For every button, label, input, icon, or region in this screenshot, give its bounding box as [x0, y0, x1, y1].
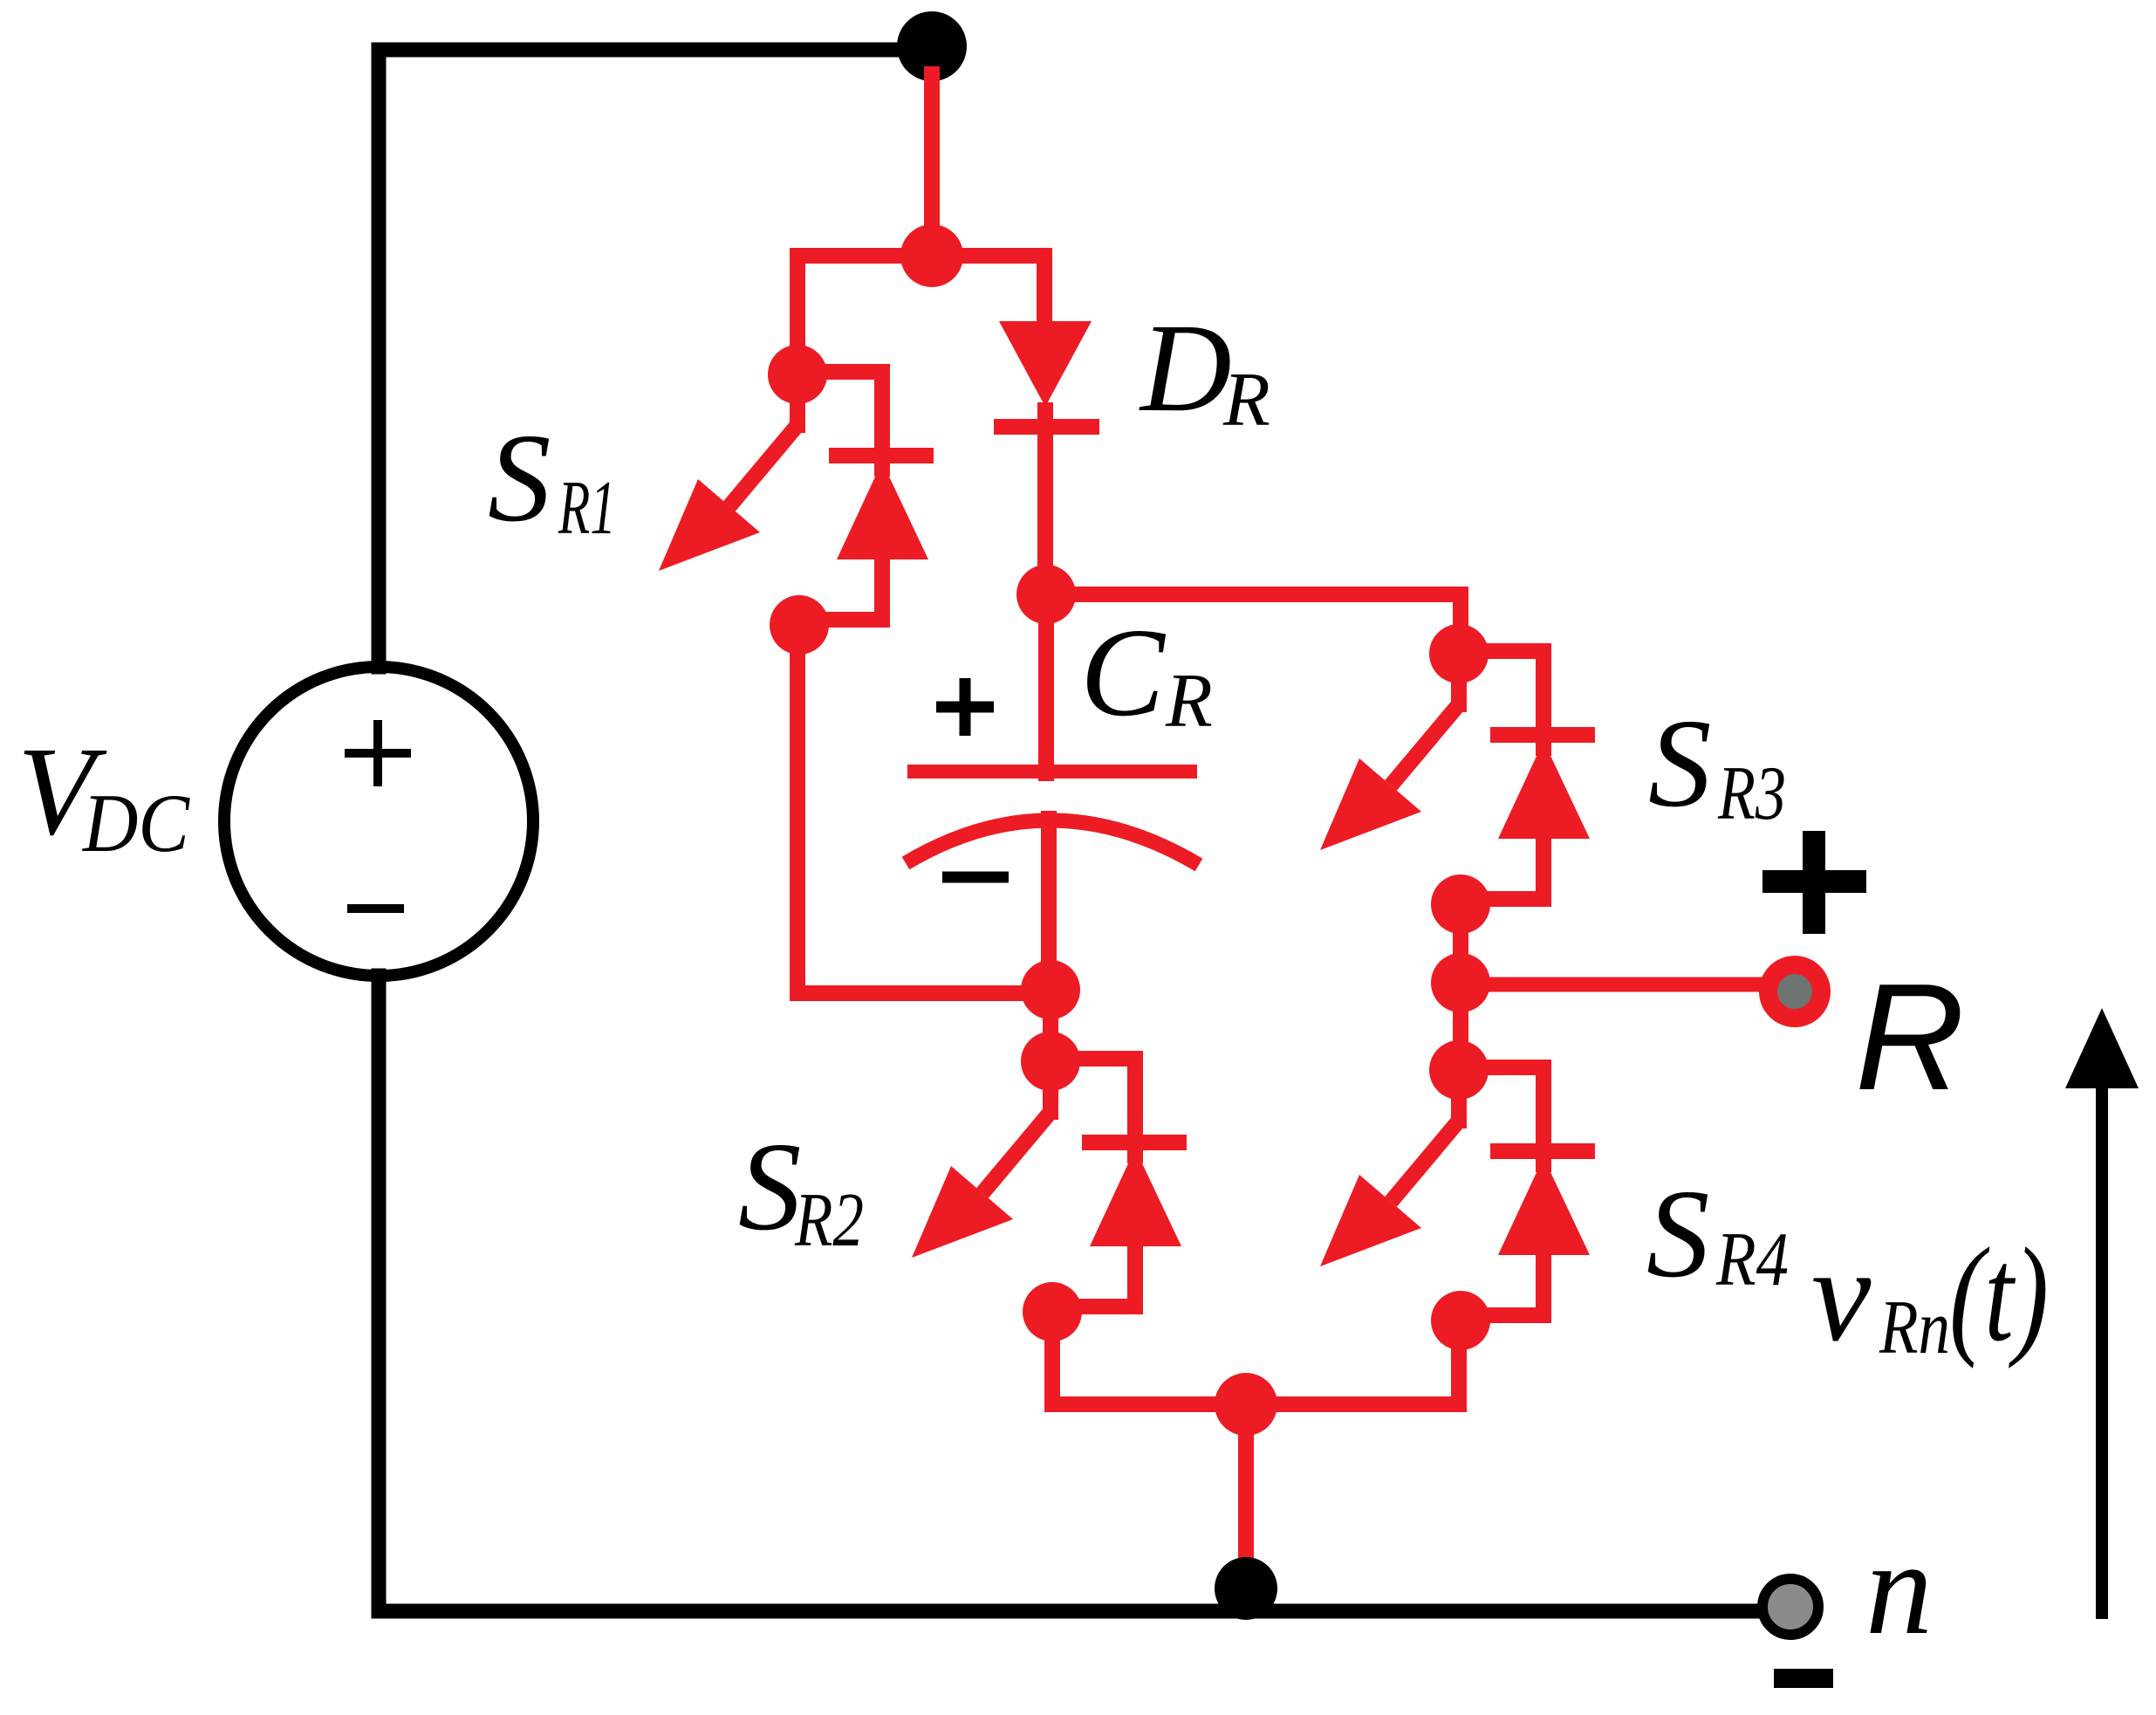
switch SR3 antiparallel diode triangle	[1498, 741, 1590, 839]
svg-text:C: C	[1080, 603, 1167, 743]
switch SR4 top terminal dot	[1429, 1040, 1489, 1100]
wire: red drop from top node	[924, 74, 940, 256]
wire: junction to SR3 branch	[1046, 587, 1461, 602]
wire: horizontal red split	[797, 248, 1044, 264]
terminal R: red ring with gray center	[1759, 956, 1831, 1027]
svg-text:R: R	[1222, 358, 1270, 442]
wire: top black wire from source to top node	[379, 43, 933, 58]
switch SR1 top terminal dot	[768, 345, 827, 404]
svg-text:n: n	[1865, 1514, 1933, 1663]
svg-text:S: S	[738, 1117, 802, 1257]
node: bottom center red junction	[1215, 1373, 1277, 1436]
wire: down-right to DR	[1037, 256, 1052, 325]
bold plus above R terminal	[1762, 870, 1866, 893]
switch SR4 arm arrowhead	[1320, 1175, 1421, 1266]
switch SR4 lower diode wires	[1536, 1255, 1551, 1315]
vRn(t) arrowhead	[2065, 1008, 2139, 1088]
switch SR4 bottom terminal dot	[1431, 1291, 1490, 1350]
VDC plus sign	[345, 749, 411, 758]
diode DR cathode bar	[994, 419, 1099, 435]
switch SR2 antiparallel diode connection wires	[1051, 1051, 1135, 1067]
switch SR3 lower diode wires	[1536, 839, 1551, 899]
VDC minus sign	[347, 904, 404, 913]
svg-text:v: v	[1811, 1221, 1872, 1369]
wire: SR2 bottom to bottom center junction	[1044, 1312, 1060, 1404]
switch SR3 arm arrowhead	[1320, 758, 1421, 850]
switch SR4 antiparallel diode connection wires	[1459, 1060, 1543, 1075]
svg-text:(t): (t)	[1949, 1221, 2049, 1369]
diode DR triangle	[999, 321, 1092, 407]
minus sign below capacitor	[942, 872, 1009, 883]
switch SR2 antiparallel diode triangle	[1090, 1149, 1181, 1246]
switch SR3 antiparallel diode cathode bar	[1490, 727, 1595, 743]
switch SR1 arm arrowhead	[659, 479, 760, 571]
wire: bottom black rail to terminal n	[379, 1604, 1787, 1619]
node: bottom black junction dot (overpaint)	[1215, 1557, 1277, 1620]
wire: SR1 leg to center junction	[797, 985, 1051, 1001]
svg-text:Rn: Rn	[1879, 1286, 1950, 1370]
capacitor CR bottom curved plate	[906, 820, 1199, 865]
capacitor CR top plate	[907, 765, 1197, 779]
svg-text:R3: R3	[1717, 751, 1786, 836]
wire: junction down to capacitor CR	[1038, 594, 1054, 773]
svg-text:R: R	[1165, 659, 1213, 744]
svg-text:R: R	[1855, 951, 1965, 1122]
switch SR2 bottom terminal dot	[1023, 1282, 1082, 1341]
wire: to R terminal	[1461, 978, 1764, 992]
node: junction capacitor / SR1 leg	[1021, 960, 1080, 1019]
wire: DR to junction	[1037, 410, 1053, 596]
wire: junction to SR2	[1043, 990, 1058, 1061]
node: red junction below top node	[900, 224, 963, 287]
wire: red drop to bottom black rail	[1238, 1404, 1254, 1562]
switch SR4 arm wire	[1451, 1070, 1467, 1121]
switch SR2 antiparallel diode cathode bar	[1082, 1135, 1187, 1150]
wire: right rail SR3 bottom to SR4 top	[1453, 904, 1468, 1070]
svg-text:R2: R2	[794, 1178, 864, 1263]
switch SR4 antiparallel diode triangle	[1498, 1157, 1590, 1255]
switch SR3 top terminal dot	[1429, 624, 1489, 683]
switch SR1 antiparallel diode connection wires	[797, 364, 882, 380]
svg-text:S: S	[1648, 694, 1712, 833]
wire: SR1 bottom leg down	[790, 625, 805, 993]
wire: down-left to SR1	[790, 256, 805, 374]
vRn(t) arrow shaft	[2096, 1082, 2108, 1613]
switch SR2 arm arrowhead	[912, 1166, 1013, 1258]
switch SR3 antiparallel diode connection wires	[1459, 643, 1543, 659]
wire: left black wire from VDC down to bottom rail	[372, 976, 387, 1611]
switch SR1 arm wire	[790, 374, 805, 425]
node: junction DR/CR/SR3	[1016, 565, 1076, 624]
switch SR4 antiparallel diode cathode bar	[1490, 1143, 1595, 1159]
svg-text:S: S	[1646, 1164, 1710, 1304]
wire: left black wire down to VDC source	[372, 50, 387, 667]
switch SR1 bottom terminal dot	[770, 595, 829, 655]
switch SR2 arm wire	[1043, 1061, 1058, 1112]
switch SR2 lower diode wires	[1127, 1246, 1143, 1307]
plus sign above capacitor	[936, 702, 994, 713]
switch SR1 antiparallel diode triangle	[837, 462, 928, 559]
wire: up to SR4 bottom	[1451, 1321, 1467, 1404]
bold minus below n	[1774, 1669, 1833, 1688]
svg-text:R4: R4	[1715, 1218, 1789, 1302]
switch SR3 bottom terminal dot	[1431, 875, 1490, 934]
switch SR1 lower diode wires	[874, 559, 890, 620]
svg-text:DC: DC	[81, 777, 190, 869]
voltage source VDC circle	[224, 667, 533, 976]
svg-text:D: D	[1139, 298, 1232, 438]
node: top black junction dot	[897, 11, 967, 81]
switch SR2 top terminal dot	[1021, 1032, 1080, 1091]
svg-text:R1: R1	[558, 466, 616, 551]
terminal n: gray circle with black ring	[1762, 1579, 1818, 1635]
switch SR1 antiparallel diode cathode bar	[829, 448, 934, 463]
wire: capacitor down to junction	[1041, 819, 1057, 991]
svg-text:S: S	[488, 408, 551, 548]
switch SR3 arm wire	[1451, 654, 1467, 704]
node: junction to R terminal	[1431, 953, 1490, 1012]
